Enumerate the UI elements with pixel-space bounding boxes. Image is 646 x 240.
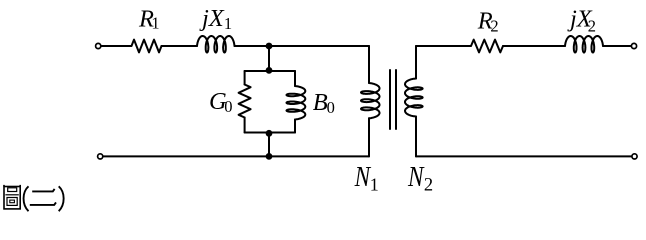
caption glyph 圖: outer box	[4, 187, 20, 209]
caption glyph 圖: lower hui box outer	[7, 198, 17, 206]
caption glyph 圖: middle horizontal stroke	[5, 194, 18, 196]
wire: R1 to jX1	[162, 45, 198, 47]
svg-text:1: 1	[370, 174, 379, 194]
svg-text:0: 0	[327, 98, 335, 117]
wire: jX1 to transformer primary top corner (through shunt node)	[235, 45, 370, 47]
wire: G0 branch bottom lead	[244, 118, 246, 133]
inductor jX1	[197, 36, 235, 53]
resistor R1	[132, 40, 162, 53]
transformer core line (left)	[389, 70, 391, 129]
svg-text:2: 2	[424, 175, 433, 195]
svg-text:jX: jX	[199, 5, 225, 32]
caption: figure label 圖(二) drawn as vector strokes	[4, 185, 64, 211]
wire: secondary bottom corner to bottom-right terminal	[416, 155, 632, 157]
resistor R2	[471, 40, 503, 53]
node: bottom wire / shunt junction	[266, 153, 273, 160]
wire: stub from top wire down to shunt top rail	[268, 46, 270, 71]
caption glyph 圖: outer box top corner ticks	[4, 185, 20, 187]
wire: top-left terminal to R1	[101, 45, 131, 47]
caption glyph 二: top stroke	[32, 189, 54, 192]
svg-text:1: 1	[151, 14, 159, 33]
terminal: output top-right	[631, 43, 636, 48]
terminal: output bottom-right	[632, 154, 637, 159]
caption glyph 二: bottom stroke	[30, 202, 56, 205]
wire: R2 to jX2	[503, 45, 565, 47]
terminal: input top-left	[96, 43, 101, 48]
wire: shunt bottom rail	[245, 132, 295, 134]
svg-text:2: 2	[490, 16, 498, 35]
svg-text:N: N	[354, 162, 371, 193]
wire: B0 branch top lead	[294, 71, 296, 86]
resistor G0	[239, 85, 251, 118]
transformer secondary winding N2: coil	[405, 79, 423, 117]
svg-text:N: N	[407, 162, 424, 193]
terminal: input bottom-left	[98, 154, 103, 159]
node: top wire / shunt junction	[266, 43, 273, 50]
svg-text:0: 0	[224, 97, 232, 116]
svg-text:B: B	[313, 89, 328, 116]
inductor jX2	[565, 36, 603, 53]
caption glyph 圖: inner mouth box (top)	[8, 188, 17, 192]
transformer primary winding N1: top lead	[368, 46, 370, 83]
wire: shunt top rail	[245, 70, 295, 72]
transformer core line (right)	[395, 70, 397, 129]
transformer secondary winding N2: bottom lead	[415, 117, 417, 157]
svg-text:2: 2	[588, 16, 596, 35]
svg-text:1: 1	[224, 14, 232, 33]
wire: jX2 to top-right terminal	[603, 45, 631, 47]
wire: stub from shunt bottom rail to bottom wire	[268, 133, 270, 157]
caption glyph 圖: lower hui box inner	[10, 200, 15, 203]
caption: closing parenthesis	[59, 186, 64, 211]
inductor B0	[287, 86, 306, 120]
caption: opening parenthesis	[24, 186, 29, 211]
wire: secondary top to R2	[416, 45, 471, 47]
transformer primary winding N1: coil	[361, 83, 380, 118]
wire: B0 branch bottom lead	[294, 120, 296, 133]
wire: bottom-left terminal to primary bottom corner	[103, 155, 369, 157]
node: shunt bottom rail junction	[266, 130, 273, 137]
transformer primary winding N1: bottom lead	[368, 118, 370, 156]
node: shunt top rail junction	[266, 67, 273, 74]
transformer secondary winding N2: top lead	[415, 46, 417, 79]
wire: G0 branch top lead	[244, 71, 246, 85]
